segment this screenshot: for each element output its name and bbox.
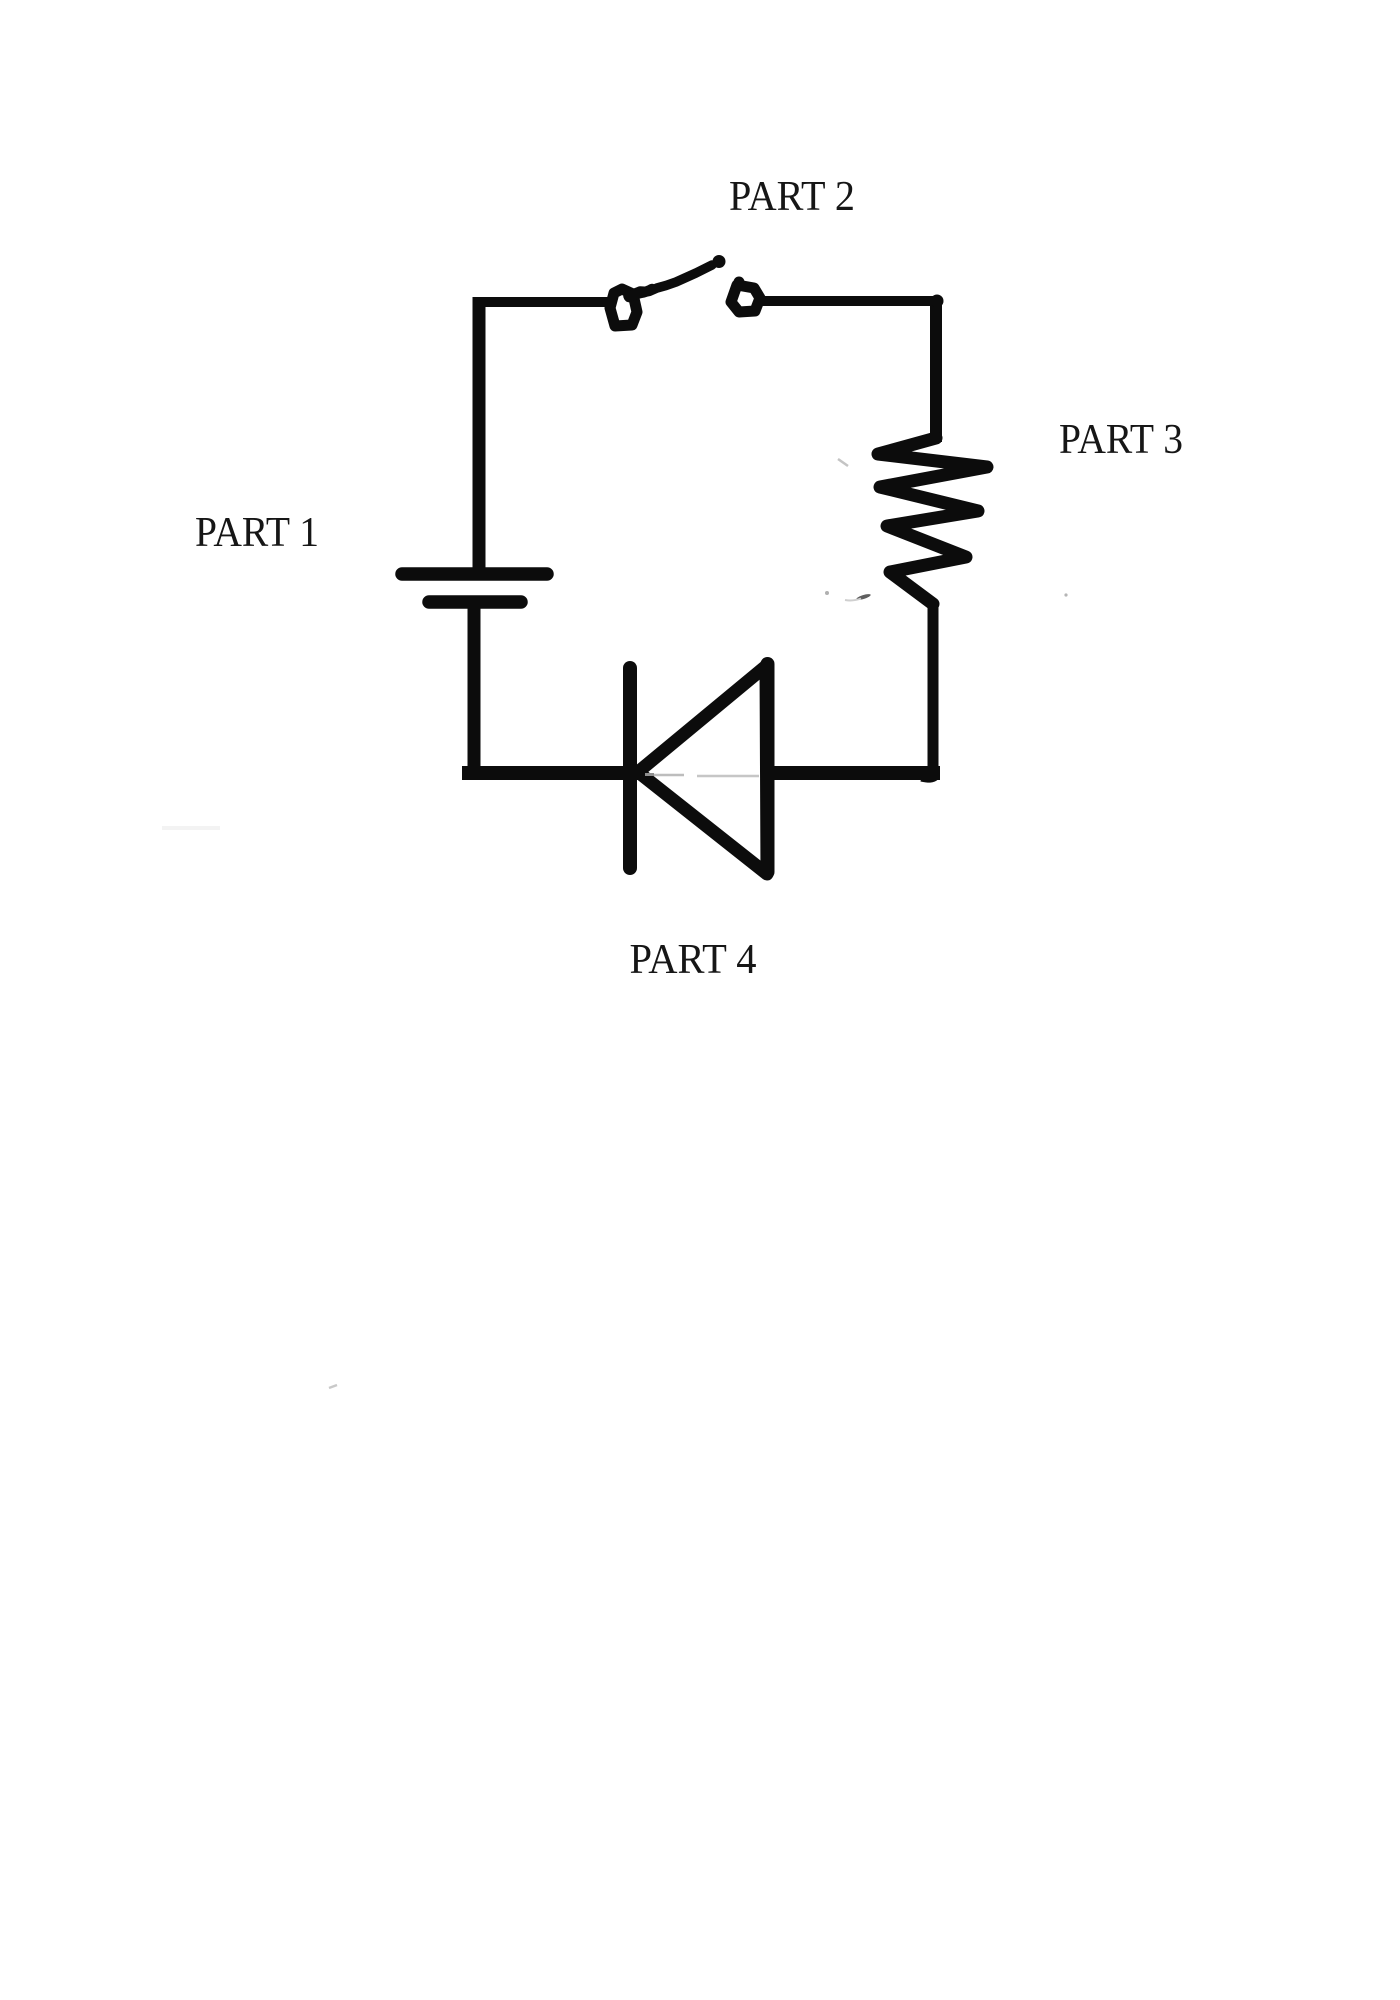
svg-text:PART 2: PART 2 [729,173,855,220]
svg-text:PART 1: PART 1 [195,509,319,556]
svg-text:PART 3: PART 3 [1059,416,1183,463]
svg-text:PART 4: PART 4 [630,936,757,983]
